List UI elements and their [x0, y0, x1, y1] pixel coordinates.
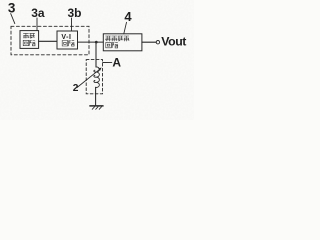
kanji text block 3a: oscillator circuit — [23, 33, 35, 46]
variable-inductor arrow — [77, 69, 100, 88]
kanji text block 4: signal processing circuit — [105, 36, 129, 48]
leader line for label 3a — [36, 18, 38, 31]
dashed block boundary 3 (sensor drive section) — [11, 26, 89, 55]
wire coil to ground — [95, 87, 97, 106]
ground symbol — [90, 105, 103, 107]
block 4 (signal processing circuit box) — [103, 34, 142, 51]
block 3a (oscillator circuit box) — [20, 31, 39, 49]
inductor coil 2 — [94, 67, 100, 88]
vertical wire down to inductor — [95, 42, 97, 67]
block 3b (V-I circuit box) — [57, 31, 78, 49]
leader line for label A — [103, 61, 112, 63]
wire 3a to 3b — [39, 40, 57, 42]
dashed box A (sensor element) — [86, 60, 102, 94]
wire 3b to block 4 — [78, 41, 104, 43]
leader line for label 3b — [71, 18, 73, 31]
output terminal circle — [156, 41, 159, 44]
wire block4 to output terminal — [142, 41, 156, 43]
leader line for label 3 — [11, 14, 15, 24]
junction node — [95, 41, 98, 44]
leader line for label 4 — [124, 22, 127, 34]
